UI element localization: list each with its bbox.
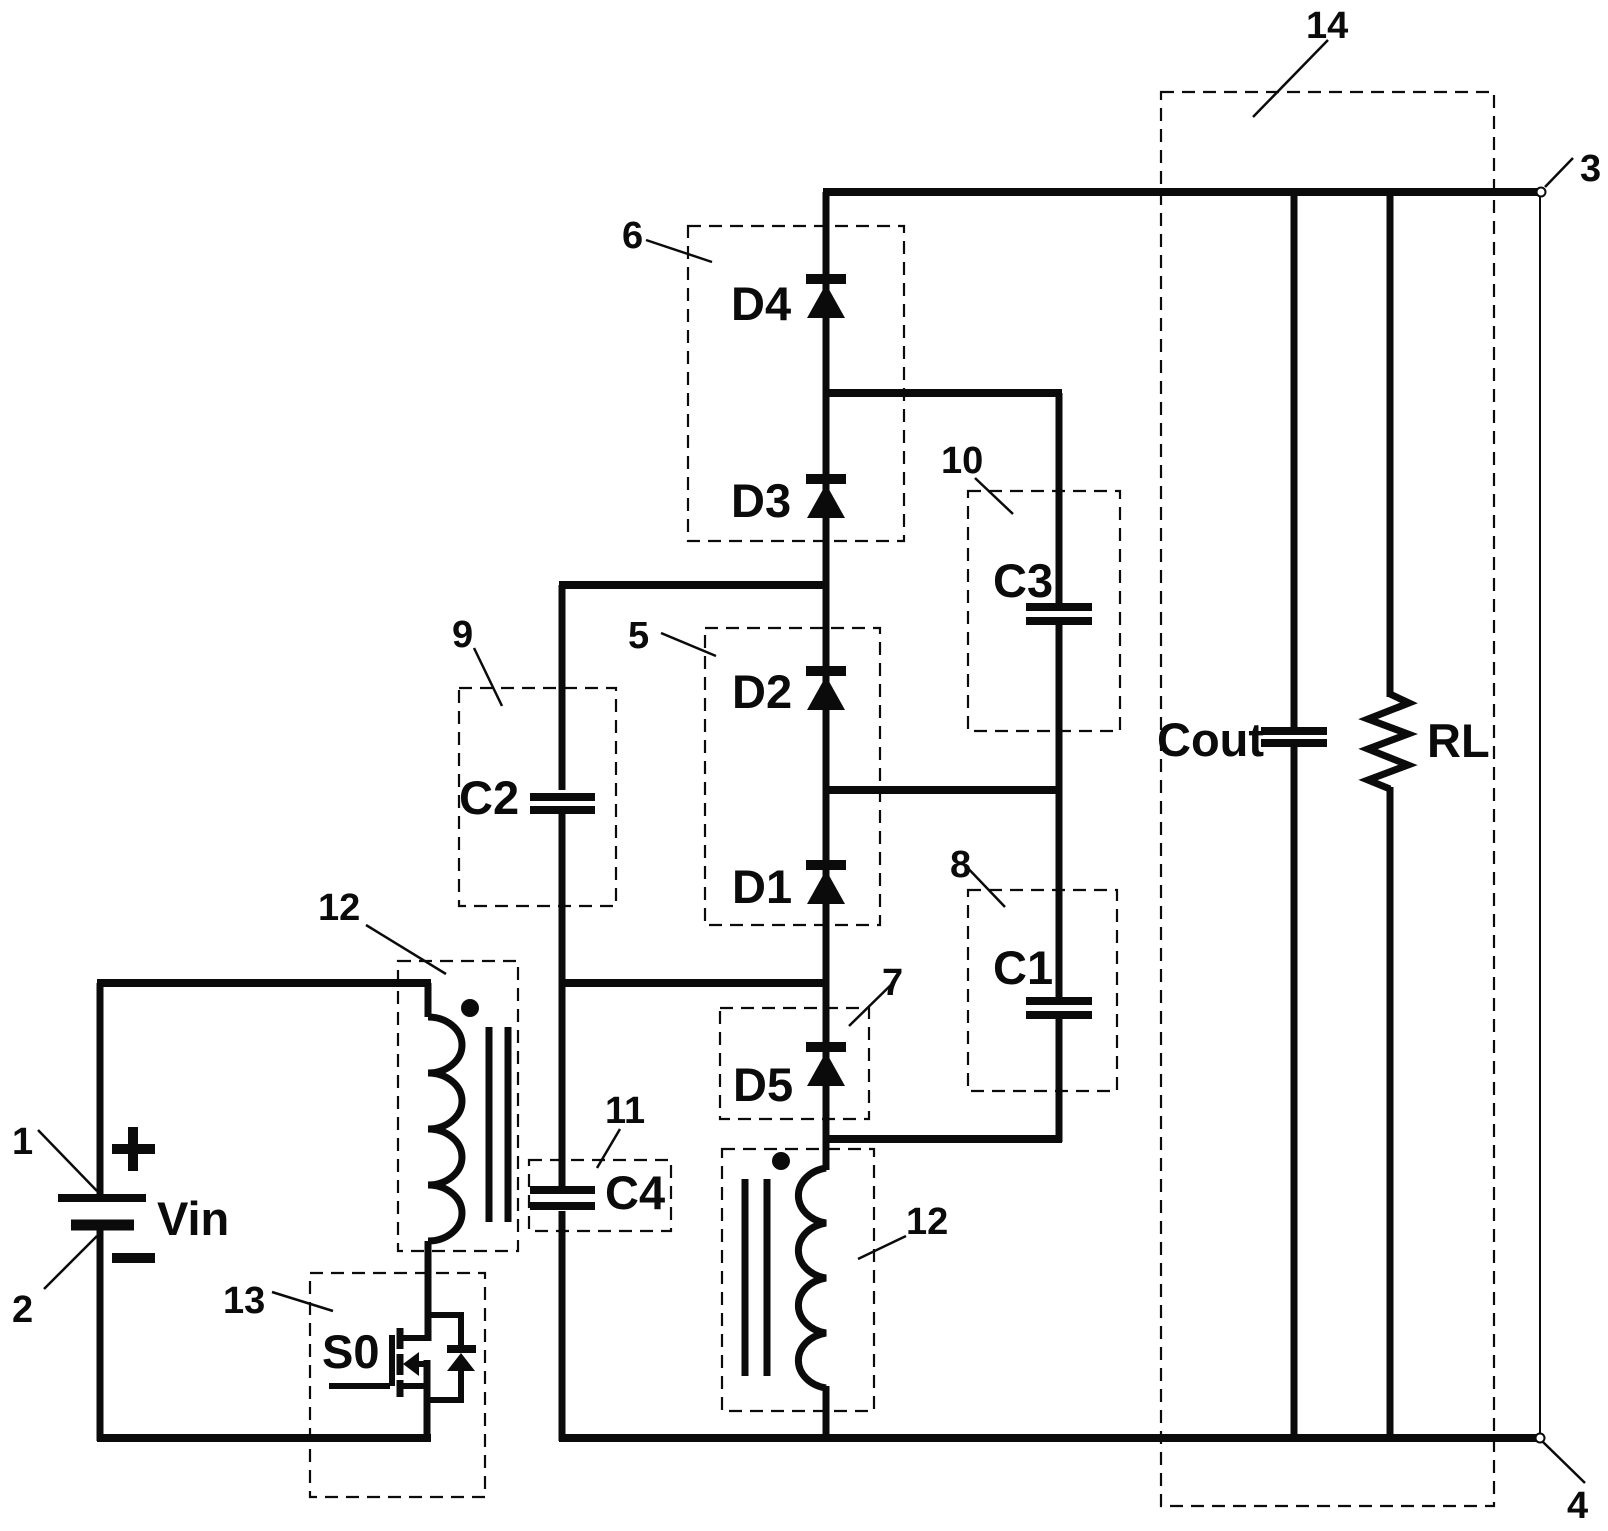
svg-text:D2: D2 <box>732 665 792 718</box>
battery minus mark <box>112 1253 155 1263</box>
svg-text:8: 8 <box>950 844 971 886</box>
wire Vin left vertical lower <box>97 1225 104 1441</box>
box 14 (output group) <box>1161 92 1494 1506</box>
wire node between C2/C4 to D1/D5 node <box>559 979 829 987</box>
svg-text:10: 10 <box>941 440 983 482</box>
capacitor C3 <box>1026 607 1092 621</box>
wire bottom return rail (node 4 rail) <box>559 1434 1544 1442</box>
transformer primary core bars <box>489 1027 508 1222</box>
wire left branch vertical below C4 <box>559 1211 566 1441</box>
wire Vin bottom to S0 source <box>97 1434 431 1442</box>
transistor S0 body arrow <box>403 1352 419 1376</box>
transistor S0 body diode branch wires <box>427 1315 461 1346</box>
wire junction D2/D1 to C3/C1 junction <box>823 786 1062 794</box>
wire C1 bottom to D5 anode node <box>823 1135 1062 1143</box>
wire RL vertical upper <box>1387 192 1394 697</box>
svg-text:S0: S0 <box>322 1325 380 1378</box>
leader line for label 11 <box>597 1129 620 1168</box>
diode D4 <box>806 279 846 318</box>
svg-text:RL: RL <box>1427 714 1490 767</box>
diode D2 <box>806 671 846 710</box>
wire left branch vertical C2 to C4 <box>559 814 566 1186</box>
leader line for label 12 primary <box>366 925 446 974</box>
leader line for label 8 <box>962 862 1005 907</box>
svg-text:11: 11 <box>605 1090 645 1132</box>
leader line for label 5 <box>661 633 716 656</box>
svg-text:3: 3 <box>1580 148 1601 190</box>
diode D5 <box>806 1047 846 1086</box>
svg-text:C1: C1 <box>993 941 1053 994</box>
box 12 primary (transformer) <box>398 961 518 1251</box>
wire top output bus (node 3 rail) <box>823 188 1544 196</box>
wire C3 branch vertical lower <box>1056 621 1063 999</box>
wire left branch vertical above C2 <box>559 585 566 790</box>
box 8 (C1 group) <box>968 890 1117 1091</box>
svg-text:9: 9 <box>452 614 473 656</box>
wire primary bottom lead to S0 drain <box>425 1241 432 1341</box>
wire C2 top branch <box>559 581 829 589</box>
leader line for label 4 <box>1543 1442 1585 1483</box>
diode D1 <box>806 865 846 904</box>
wire Cout vertical upper <box>1291 192 1298 727</box>
wire primary top lead <box>425 983 432 1017</box>
diode D3 <box>806 479 846 518</box>
svg-text:C4: C4 <box>605 1166 665 1219</box>
svg-text:14: 14 <box>1306 5 1348 47</box>
wire right output side (node 3 to node 4) <box>1539 192 1541 1438</box>
battery plus mark <box>112 1127 155 1171</box>
wire RL vertical lower <box>1387 787 1394 1438</box>
wire Cout vertical lower <box>1291 746 1298 1438</box>
wire Vin plus to transformer primary top <box>97 979 431 987</box>
svg-text:D4: D4 <box>731 277 791 330</box>
svg-text:Vin: Vin <box>157 1192 229 1245</box>
svg-text:6: 6 <box>622 215 643 257</box>
box 13 (S0 group) <box>310 1273 485 1497</box>
leader line for label 10 <box>975 478 1013 514</box>
svg-text:D5: D5 <box>733 1058 793 1111</box>
box 5 (D1 D2 group) <box>705 628 880 925</box>
leader line for label 1 <box>38 1130 97 1191</box>
svg-text:C3: C3 <box>993 554 1053 607</box>
transformer secondary core bars <box>745 1179 767 1376</box>
svg-text:D3: D3 <box>731 474 791 527</box>
svg-text:Cout: Cout <box>1157 713 1264 766</box>
box 7 (D5 group) <box>720 1008 869 1119</box>
transistor S0 body diode <box>447 1349 476 1371</box>
capacitor C4 <box>530 1190 595 1206</box>
wire C3 branch vertical upper <box>1056 393 1063 603</box>
transformer primary phase dot <box>461 999 479 1017</box>
leader line for label 13 <box>272 1292 333 1311</box>
resistor RL zigzag <box>1368 694 1409 789</box>
wire junction D4/D3 to C3 top <box>823 389 1062 397</box>
svg-text:5: 5 <box>628 615 649 657</box>
battery Vin <box>58 1198 146 1225</box>
svg-text:12: 12 <box>318 887 360 929</box>
wire C1 branch vertical lower <box>1056 1015 1063 1142</box>
leader line for label 14 <box>1253 40 1328 117</box>
box 11 (C4 group) <box>529 1160 671 1231</box>
transformer secondary phase dot <box>772 1152 790 1170</box>
leader line for label 9 <box>474 648 502 706</box>
leader line for label 7 <box>849 983 893 1026</box>
svg-text:D1: D1 <box>732 860 792 913</box>
node 4 terminal <box>1536 1434 1545 1443</box>
wire S0 source to bottom rail <box>424 1360 431 1441</box>
svg-text:C2: C2 <box>459 771 519 824</box>
capacitor C2 <box>530 797 595 810</box>
svg-text:1: 1 <box>12 1121 33 1163</box>
transformer secondary winding <box>798 1168 826 1388</box>
wire main diode-string vertical <box>823 192 830 1170</box>
box 9 (C2 group) <box>459 688 616 906</box>
svg-text:2: 2 <box>12 1289 33 1331</box>
svg-text:4: 4 <box>1567 1485 1588 1527</box>
leader line for label 3 <box>1545 158 1573 187</box>
box 6 (D3 D4 group) <box>688 226 904 541</box>
capacitor C1 <box>1026 1001 1092 1015</box>
node 3 terminal <box>1537 188 1546 197</box>
box 10 (C3 group) <box>968 491 1120 731</box>
wire secondary bottom lead <box>823 1386 830 1441</box>
transistor S0 MOSFET <box>329 1328 428 1397</box>
svg-text:12: 12 <box>906 1201 948 1243</box>
box 12 secondary (transformer) <box>722 1149 874 1411</box>
svg-text:7: 7 <box>882 962 903 1004</box>
transformer primary winding <box>428 1017 462 1241</box>
leader line for label 6 <box>646 240 712 262</box>
leader line for label 2 <box>44 1236 97 1289</box>
svg-text:13: 13 <box>223 1280 265 1322</box>
leader line for label 12 secondary <box>858 1236 906 1259</box>
capacitor Cout <box>1261 731 1327 743</box>
wire Vin left vertical upper <box>97 983 104 1198</box>
